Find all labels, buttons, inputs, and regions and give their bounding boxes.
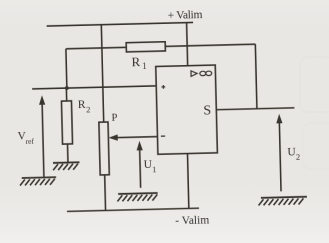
op-amp infinity gain symbol	[191, 70, 212, 76]
label U1	[144, 159, 157, 175]
wire corner vertical down to node +	[65, 49, 68, 88]
wire +Valim drop to op-amp U1 top (power)	[187, 23, 188, 66]
svg-text:P: P	[111, 112, 117, 123]
arrow U2 (output voltage to ground)	[276, 114, 284, 192]
wire feedback top left segment (node + to R1)	[66, 47, 126, 48]
label Vref	[17, 130, 34, 146]
label +Valim	[167, 9, 202, 22]
label R1	[131, 54, 146, 72]
wire R2 bottom to ground	[67, 144, 69, 163]
wire +Valim rail	[47, 22, 193, 26]
ground (U1)	[117, 193, 158, 201]
wire P wiper to op-amp - input (with arrowhead into P)	[109, 133, 158, 141]
op-amp U1 (comparator box)	[156, 65, 218, 154]
svg-text:1: 1	[142, 61, 147, 71]
svg-text:2: 2	[296, 152, 300, 162]
label -Valim	[175, 214, 209, 227]
ground (U2)	[258, 197, 307, 206]
label U2	[287, 146, 300, 162]
wire feedback vertical down to output S	[255, 44, 257, 109]
label R2	[78, 99, 91, 115]
resistor R1	[126, 42, 165, 52]
svg-text:R: R	[78, 99, 86, 111]
svg-text:1: 1	[152, 164, 156, 174]
arrow Vref (voltage from ground to + node)	[39, 95, 47, 177]
potentiometer P body	[99, 122, 109, 175]
wire output S to the right	[216, 108, 294, 110]
wire op-amp bottom (power) to -Valim rail	[187, 154, 188, 209]
wire rail to potentiometer P top	[101, 25, 103, 122]
node junction dot at + input net	[65, 86, 69, 90]
wire R1 to feedback corner	[165, 44, 255, 46]
arrow U1 (voltage across P wiper to ground)	[136, 141, 143, 188]
bleed-through ghost top right	[300, 57, 329, 112]
resistor R2	[61, 101, 72, 144]
ground (Vref)	[20, 177, 56, 185]
pin S (output label)	[203, 103, 211, 118]
svg-text:2: 2	[86, 104, 90, 114]
label P	[111, 112, 117, 123]
wire P bottom to -Valim rail	[104, 175, 107, 211]
wire -Valim rail	[67, 208, 199, 211]
svg-text:- Valim: - Valim	[175, 214, 209, 227]
wire Vref node to op-amp + input	[32, 86, 156, 89]
svg-text:R: R	[131, 54, 140, 69]
wire node to resistor R2 top	[65, 88, 67, 101]
svg-text:S: S	[203, 103, 211, 118]
pin + (non-inverting input)	[161, 85, 165, 89]
pin - (inverting input)	[161, 135, 165, 137]
svg-text:+ Valim: + Valim	[167, 9, 202, 22]
ground (R2)	[53, 162, 80, 170]
svg-text:ref: ref	[26, 136, 35, 145]
bleed-through ghost right	[303, 123, 329, 169]
